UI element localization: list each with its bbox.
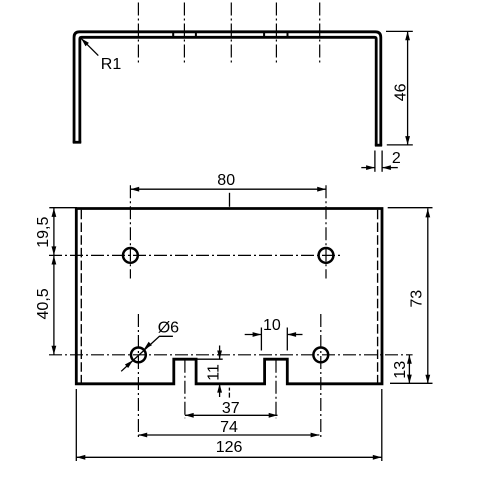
dimension 40,5 — [53, 256, 55, 355]
dimension 19,5 — [49, 207, 77, 209]
hole bottom-right — [313, 348, 328, 363]
dimension 126 — [75, 389, 77, 461]
leader R1 — [81, 38, 98, 55]
channel outline inner (side view) — [80, 37, 376, 146]
leader diameter 6 — [121, 336, 173, 371]
centerline notch left / ext 37 — [184, 360, 186, 419]
channel left leg bottom — [73, 141, 81, 144]
centerline C (side view) — [230, 3, 232, 65]
dimension 46 — [386, 30, 413, 32]
svg-text:46: 46 — [392, 83, 409, 101]
svg-text:40,5: 40,5 — [35, 288, 52, 319]
hole top-right — [319, 248, 334, 263]
svg-text:37: 37 — [222, 400, 240, 417]
dimension 73 — [388, 207, 433, 209]
centerline top holes horizontal — [49, 254, 341, 256]
centerline bottom-right hole vertical / ext 74 — [320, 314, 322, 438]
hole bottom-left — [131, 348, 146, 363]
svg-text:Ø6: Ø6 — [158, 319, 179, 336]
centerline A (side view) — [137, 3, 139, 65]
plate center axis stub top — [229, 193, 231, 207]
svg-text:2: 2 — [392, 150, 401, 167]
hidden bend line left (plan view) — [80, 210, 82, 384]
svg-text:11: 11 — [205, 364, 222, 381]
svg-text:13: 13 — [392, 361, 409, 379]
centerline B (side view) — [183, 3, 185, 65]
dimension 11 — [198, 358, 223, 360]
channel outline outer (side view) — [74, 32, 381, 146]
hole top-left — [123, 248, 138, 263]
dimension 10 — [260, 328, 262, 351]
svg-text:19,5: 19,5 — [35, 217, 52, 248]
hidden bend line right (plan view) — [377, 210, 379, 384]
svg-text:80: 80 — [217, 172, 235, 189]
centerline notch right / ext 37 — [275, 360, 277, 419]
dimension 13 — [408, 355, 410, 384]
centerline bottom holes horizontal — [49, 354, 413, 356]
svg-text:73: 73 — [409, 290, 426, 308]
centerline bottom-left hole vertical / ext 74 — [137, 314, 139, 438]
dimension 80 — [130, 188, 326, 190]
dimension 74 — [138, 434, 319, 436]
hidden notch edge ticks (side view) — [173, 33, 287, 37]
centerline top-right hole vertical / ext 80 — [325, 185, 327, 278]
svg-text:R1: R1 — [101, 56, 122, 73]
svg-text:126: 126 — [216, 439, 243, 456]
svg-text:74: 74 — [220, 419, 238, 436]
dimension 37 — [185, 414, 278, 416]
plate center axis stub bottom — [228, 388, 230, 398]
centerline top-left hole vertical / ext 80 — [129, 185, 131, 278]
centerline E (side view) — [319, 3, 321, 65]
channel right leg bottom — [375, 144, 382, 147]
centerline D (side view) — [275, 3, 277, 65]
dimension 2 — [374, 151, 376, 172]
plate outline (plan view) — [76, 209, 382, 384]
svg-text:10: 10 — [263, 317, 281, 334]
